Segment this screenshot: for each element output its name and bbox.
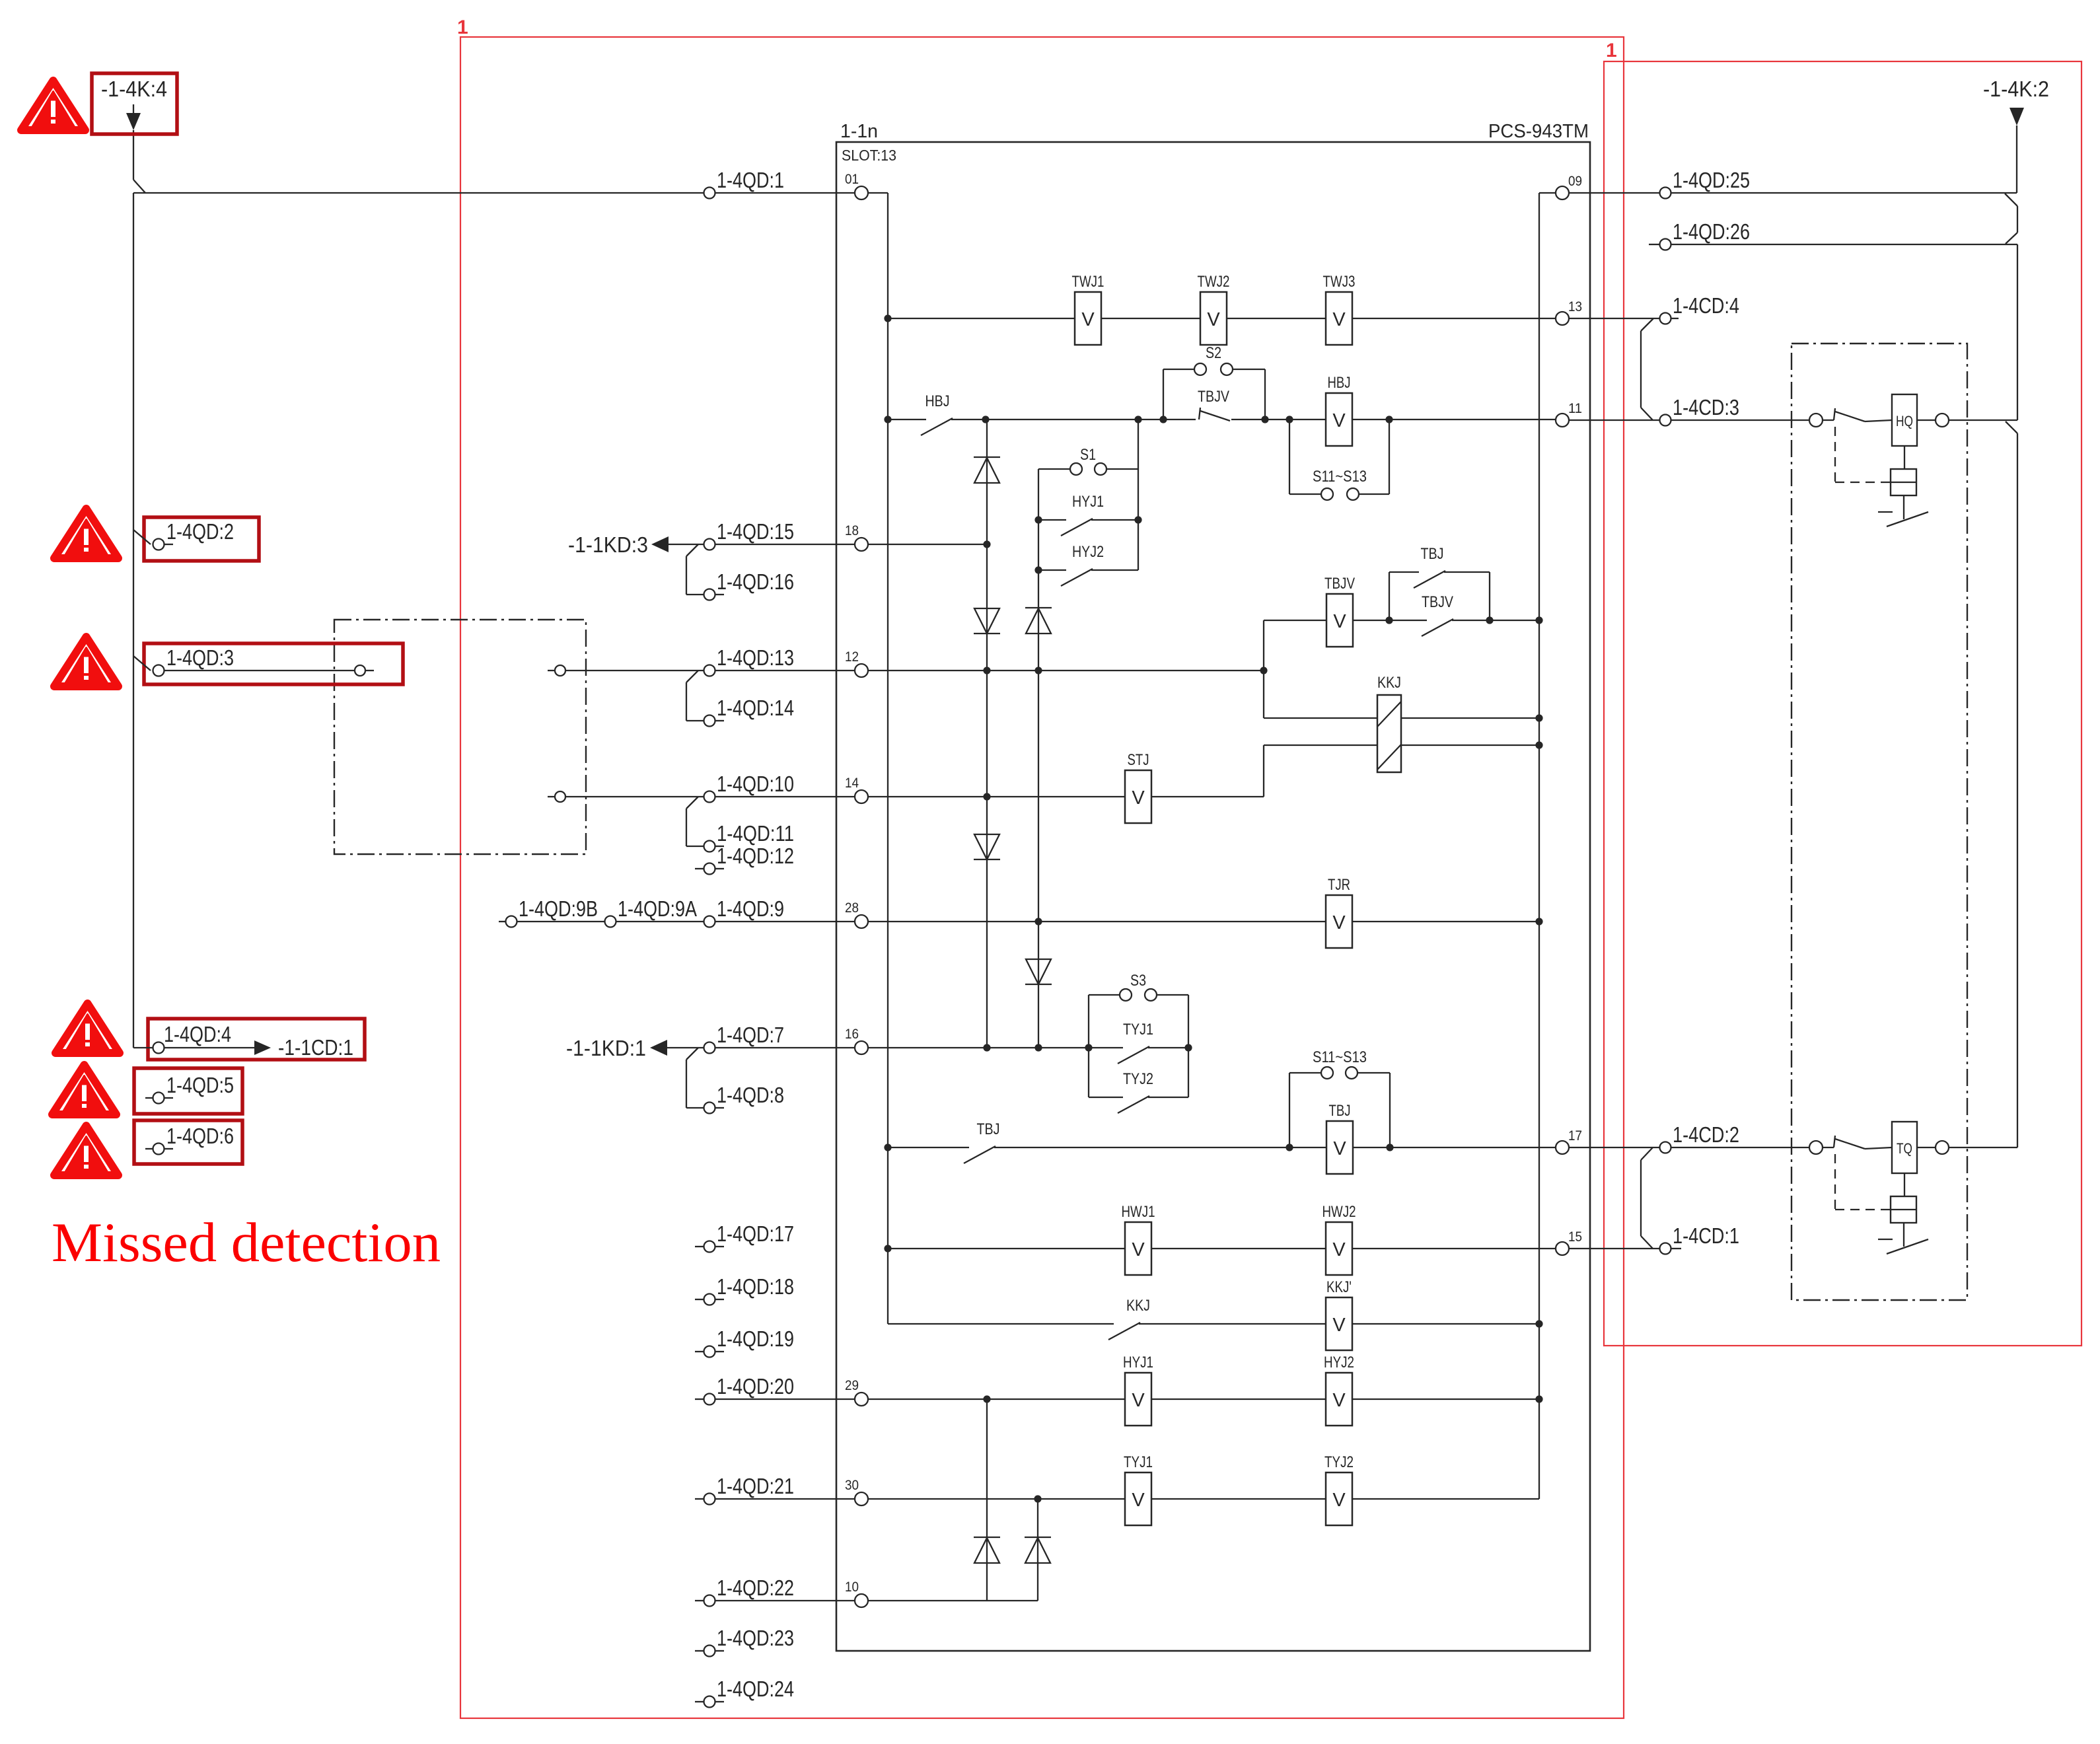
junction TBJ/S11 right	[1386, 1144, 1393, 1151]
highlight box 1-4QD:2	[144, 517, 259, 561]
svg-text:1-4QD:24: 1-4QD:24	[717, 1677, 794, 1701]
terminal 1-4QD:26	[1649, 219, 2017, 250]
svg-text:HWJ1: HWJ1	[1122, 1203, 1155, 1221]
svg-text:-1-4K:2: -1-4K:2	[1983, 77, 2049, 101]
wire 17 to 1-4CD:2	[1569, 1147, 1659, 1148]
svg-text:HYJ2: HYJ2	[1072, 543, 1104, 561]
terminal 1-4QD:8	[704, 1083, 785, 1114]
terminal 1-4QD:9	[704, 896, 855, 927]
wire 11 to 1-4CD:3	[1569, 419, 1659, 421]
svg-text:09: 09	[1568, 174, 1582, 189]
terminal 1-4QD:22	[695, 1576, 855, 1607]
diode D7 vertical	[1037, 1499, 1038, 1601]
junction on right bus y939	[1535, 616, 1542, 624]
svg-text:16: 16	[845, 1027, 859, 1042]
breaker close coil HQ	[1809, 394, 1949, 527]
svg-text:S2: S2	[1206, 344, 1221, 362]
svg-text:S11~S13: S11~S13	[1313, 468, 1367, 486]
svg-text:TBJV: TBJV	[1198, 388, 1229, 406]
junction x1494 row13	[983, 667, 990, 674]
svg-text:TBJV: TBJV	[1324, 575, 1355, 593]
svg-text:S1: S1	[1080, 446, 1096, 464]
warning icon 1	[21, 81, 85, 130]
terminal 1-4QD:15	[704, 519, 855, 550]
block pin 09	[1556, 174, 1582, 200]
terminal 1-4QD:7	[704, 1023, 855, 1054]
relay coil HWJ2	[1322, 1203, 1356, 1275]
terminal 1-4QD:11	[704, 821, 795, 852]
junction on bus at HWJ row	[884, 1245, 891, 1252]
relay KKJ (hatched)	[1377, 674, 1401, 772]
wire 09 to 1-4QD:25	[1569, 192, 1659, 194]
svg-text:PCS-943TM: PCS-943TM	[1488, 121, 1589, 142]
svg-text:1-4QD:7: 1-4QD:7	[717, 1023, 784, 1047]
svg-text:V: V	[1132, 787, 1145, 809]
terminal on dashed box right (row13)	[548, 665, 704, 676]
diode D2 (down)	[974, 608, 1000, 634]
svg-text:1-4QD:8: 1-4QD:8	[717, 1083, 784, 1107]
KKJ bottom wire	[1264, 745, 1539, 746]
contact KKJ	[1108, 1297, 1150, 1340]
svg-text:S3: S3	[1130, 972, 1146, 990]
relay coil KKJ'	[1326, 1278, 1352, 1350]
svg-text:V: V	[1081, 309, 1095, 330]
diode D3 (up)	[1025, 608, 1052, 634]
svg-text:TBJ: TBJ	[1329, 1102, 1351, 1120]
relay coil HBJ	[1326, 374, 1352, 446]
junction HBJ/S2 right	[1261, 416, 1268, 423]
jog at HQ row	[2006, 421, 2017, 433]
block pin 29	[845, 1378, 868, 1406]
TYJ row wire	[868, 1498, 1539, 1500]
svg-text:HYJ1: HYJ1	[1123, 1354, 1153, 1371]
right vertical rail upper	[2017, 244, 2018, 420]
svg-text:28: 28	[845, 900, 859, 916]
svg-text:1-4QD:14: 1-4QD:14	[717, 696, 794, 720]
svg-text:V: V	[1332, 1490, 1346, 1511]
svg-text:STJ: STJ	[1128, 751, 1149, 769]
svg-text:1-4QD:12: 1-4QD:12	[717, 844, 794, 868]
svg-text:V: V	[1207, 309, 1220, 330]
relay coil TBJ	[1326, 1102, 1353, 1174]
sink arrow -1-4K:2	[1983, 77, 2049, 193]
svg-text:1-4QD:9B: 1-4QD:9B	[519, 896, 598, 921]
svg-text:1-4QD:18: 1-4QD:18	[717, 1274, 794, 1299]
S2 branch	[1163, 344, 1265, 419]
svg-text:30: 30	[845, 1478, 859, 1493]
terminal 1-4QD:20	[695, 1374, 855, 1405]
svg-text:1-4QD:22: 1-4QD:22	[717, 1576, 794, 1600]
terminal 1-4CD:4	[1660, 293, 1740, 324]
relay coil TWJ2	[1198, 273, 1230, 345]
svg-text:V: V	[1332, 410, 1346, 431]
junction x1572 row16	[1034, 1044, 1042, 1051]
svg-text:TYJ2: TYJ2	[1324, 1453, 1354, 1471]
bracket 13/14	[686, 671, 704, 721]
svg-text:29: 29	[845, 1378, 859, 1393]
HBJ row wire	[888, 419, 1556, 420]
dashed outline box (right)	[1792, 344, 1967, 1300]
contact TBJV (lower)	[1389, 593, 1490, 636]
svg-text:10: 10	[845, 1580, 859, 1595]
page reference box 1 label	[457, 17, 468, 38]
top rail wire	[133, 192, 704, 194]
junction x1572 row9	[1034, 918, 1042, 925]
bracket 10/11	[686, 797, 704, 846]
terminal 1-4QD:18	[695, 1274, 794, 1305]
svg-text:1-4QD:9A: 1-4QD:9A	[618, 896, 697, 921]
junction TYJ/diode	[1034, 1495, 1041, 1502]
missed detection text	[52, 1212, 441, 1274]
svg-text:1-4CD:2: 1-4CD:2	[1673, 1122, 1739, 1147]
terminal 1-4CD:3	[1660, 395, 1810, 426]
relay coil HYJ1	[1123, 1354, 1153, 1426]
page reference box 1 (red outline)	[460, 37, 1624, 1718]
block pin 01	[845, 172, 868, 200]
device block 1-1n	[836, 142, 1590, 1651]
HWJ row wire	[888, 1248, 1556, 1249]
arrow to -1-1KD:1	[566, 1036, 704, 1060]
svg-text:1-4QD:11: 1-4QD:11	[717, 821, 794, 846]
wire 15 to 1-4CD:1	[1569, 1248, 1659, 1249]
svg-text:17: 17	[1568, 1128, 1582, 1144]
svg-text:V: V	[1132, 1490, 1145, 1511]
TWJ row wire	[888, 318, 1556, 319]
terminal 1-4QD:19	[695, 1326, 794, 1358]
KKJ top wire	[1264, 717, 1539, 719]
svg-text:1-4CD:3: 1-4CD:3	[1673, 395, 1739, 419]
block pin 16	[845, 1027, 868, 1054]
link CD:4 to CD:3	[1641, 318, 1653, 420]
row 18 wire	[868, 544, 987, 545]
S1 group right rail	[1138, 419, 1139, 570]
TBJV row wire	[1264, 620, 1389, 621]
junction HBJ/S1 rail	[1134, 416, 1141, 423]
svg-text:TBJV: TBJV	[1422, 593, 1453, 611]
svg-text:1-4CD:4: 1-4CD:4	[1673, 293, 1739, 318]
page reference box 2 label	[1606, 40, 1617, 61]
svg-text:1-4QD:21: 1-4QD:21	[717, 1474, 794, 1498]
relay coil TJR	[1326, 876, 1352, 948]
left vertical rail	[133, 193, 134, 1048]
svg-text:HWJ2: HWJ2	[1322, 1203, 1356, 1221]
source arrow -1-4K:4	[101, 77, 167, 180]
svg-text:V: V	[1333, 611, 1346, 632]
relay coil TBJV	[1324, 575, 1355, 647]
svg-text:KKJ': KKJ'	[1326, 1278, 1352, 1296]
block pin 28	[845, 900, 868, 928]
svg-text:V: V	[1332, 1239, 1346, 1260]
svg-text:1-4QD:10: 1-4QD:10	[717, 772, 794, 796]
svg-text:Missed detection: Missed detection	[52, 1212, 441, 1274]
junction HYJ1 right	[1134, 516, 1141, 523]
diode D1 (up)	[974, 457, 1000, 483]
svg-text:1-4QD:23: 1-4QD:23	[717, 1626, 794, 1650]
terminal 1-4QD:12	[695, 844, 794, 875]
terminal 1-4QD:6	[145, 1124, 234, 1155]
arrow to -1-1CD:1	[254, 1035, 353, 1060]
svg-text:1-4QD:2: 1-4QD:2	[166, 519, 234, 544]
relay coil TYJ2	[1324, 1453, 1354, 1525]
S1 branch	[1038, 446, 1138, 475]
svg-text:15: 15	[1568, 1229, 1582, 1245]
warning icon 4	[55, 1003, 120, 1053]
svg-text:V: V	[1332, 309, 1346, 330]
breaker trip coil TQ	[1809, 1122, 1949, 1254]
dashed outline box (left)	[334, 620, 586, 854]
svg-text:11: 11	[1568, 401, 1582, 416]
jog wires 25/26	[2005, 194, 2017, 244]
terminal 1-4QD:23	[695, 1626, 794, 1657]
svg-text:V: V	[1333, 1138, 1346, 1159]
svg-text:TJR: TJR	[1328, 876, 1350, 894]
terminal on dashed box right (row10)	[548, 791, 704, 802]
diode D7 (up)	[1025, 1537, 1051, 1563]
contact TBJV (HBJ row)	[1198, 388, 1230, 421]
svg-text:HQ: HQ	[1896, 413, 1913, 429]
S3 group right rail	[1188, 995, 1189, 1097]
row 13 wire inside block	[868, 670, 1264, 671]
svg-text:1-4CD:1: 1-4CD:1	[1673, 1223, 1739, 1248]
svg-text:01: 01	[845, 172, 859, 187]
S1 group left rail	[1038, 469, 1039, 1048]
highlight box 1-4QD:3	[144, 643, 403, 684]
svg-text:1-4QD:13: 1-4QD:13	[717, 645, 794, 670]
block pin 15	[1556, 1229, 1582, 1255]
right vertical rail lower	[2017, 433, 2018, 1147]
junction on bus at TWJ row	[884, 314, 891, 322]
diode D5 (down)	[1025, 959, 1052, 984]
svg-text:1: 1	[1606, 40, 1617, 61]
junction on right bus y1395	[1535, 918, 1542, 925]
page reference box 2 (red outline)	[1604, 61, 2082, 1346]
junction x1572 row13	[1034, 667, 1042, 674]
S3 group left rail	[1088, 995, 1089, 1097]
wire TQ to rail	[1949, 1147, 2017, 1148]
TBJ bypass branch	[1389, 545, 1490, 620]
svg-text:V: V	[1332, 912, 1346, 933]
highlight box 1-4QD:4	[148, 1019, 365, 1060]
wire TBJ branch to bus	[1490, 620, 1539, 621]
svg-text:V: V	[1332, 1390, 1346, 1411]
svg-text:S11~S13: S11~S13	[1313, 1048, 1367, 1066]
relay coil TYJ1	[1124, 1453, 1153, 1525]
block pin 17	[1556, 1128, 1582, 1154]
junction on right bus y2118	[1535, 1395, 1542, 1402]
highlight box -1-4K:4	[92, 73, 177, 134]
contact HBJ	[921, 392, 953, 435]
svg-text:SLOT:13: SLOT:13	[842, 147, 896, 164]
svg-text:KKJ: KKJ	[1126, 1297, 1150, 1315]
junction on right bus y2004	[1535, 1320, 1542, 1327]
svg-text:1-4QD:26: 1-4QD:26	[1673, 219, 1750, 244]
row 22 wire	[868, 1600, 1038, 1601]
svg-text:KKJ: KKJ	[1377, 674, 1401, 692]
terminal 1-4QD:13	[704, 645, 855, 676]
contact TYJ1	[1118, 1021, 1153, 1064]
svg-text:TWJ2: TWJ2	[1198, 273, 1230, 291]
junction on bus at TBJ row	[884, 1144, 891, 1151]
highlight box 1-4QD:5	[134, 1068, 242, 1114]
svg-text:V: V	[1332, 1315, 1346, 1336]
junction x1494 row10	[983, 793, 990, 800]
riser TBJV-KKJ	[1263, 620, 1264, 718]
svg-text:1-4QD:3: 1-4QD:3	[166, 645, 234, 670]
highlight box 1-4QD:6	[134, 1120, 242, 1164]
junction TBJV right	[1385, 616, 1393, 624]
terminal 1-4QD:25	[1660, 168, 2017, 199]
link CD:2 to CD:1	[1641, 1147, 1653, 1249]
warning icon 2	[54, 509, 118, 558]
diode chain left vertical	[986, 419, 988, 1048]
svg-text:HYJ1: HYJ1	[1072, 493, 1104, 511]
relay coil TWJ1	[1072, 273, 1104, 345]
relay coil TWJ3	[1323, 273, 1356, 345]
TJR row wire	[868, 921, 1539, 922]
svg-text:18: 18	[845, 523, 859, 538]
warning icon 5	[52, 1065, 116, 1114]
junction HBJ/S11 right	[1385, 416, 1393, 423]
S3 branch	[1089, 972, 1188, 1001]
terminal 1-4QD:9A	[605, 896, 704, 927]
S11~S13 branch (TBJ)	[1289, 1048, 1390, 1147]
HYJ row wire	[868, 1399, 1539, 1400]
wire HQ to rail	[1949, 419, 2017, 421]
terminal 1-4QD:4	[133, 1022, 254, 1054]
svg-text:1-4QD:1: 1-4QD:1	[717, 168, 784, 192]
contact HYJ1	[1038, 493, 1138, 536]
svg-text:V: V	[1132, 1390, 1145, 1411]
block pin 18	[845, 523, 868, 551]
terminal 1-4QD:1	[704, 168, 855, 199]
terminal 1-4QD:16	[704, 569, 795, 600]
junction TBJ/S11 left	[1285, 1144, 1293, 1151]
junction on right bus y1087	[1535, 714, 1542, 721]
wire 13 to 1-4CD:4	[1569, 318, 1659, 319]
block pin 10	[845, 1580, 868, 1607]
block pin 12	[845, 649, 868, 677]
svg-text:TWJ1: TWJ1	[1072, 273, 1104, 291]
junction HYJ2 left	[1034, 566, 1042, 573]
junction HYJ/diode	[983, 1395, 990, 1402]
riser KKJ-STJ	[1263, 745, 1264, 797]
junction S3 left row16	[1085, 1044, 1092, 1051]
svg-text:1: 1	[457, 17, 468, 38]
svg-text:1-4QD:5: 1-4QD:5	[166, 1073, 234, 1097]
block label SLOT:13	[842, 147, 896, 164]
svg-text:-1-1KD:3: -1-1KD:3	[568, 532, 648, 557]
svg-text:1-4QD:17: 1-4QD:17	[717, 1221, 794, 1246]
junction riser row13	[1260, 667, 1267, 674]
svg-text:TYJ1: TYJ1	[1124, 1453, 1153, 1471]
terminal 1-4QD:3	[133, 645, 354, 676]
terminal 1-4QD:24	[695, 1677, 794, 1708]
svg-text:1-4QD:15: 1-4QD:15	[717, 519, 794, 544]
diode D6 vertical	[986, 1399, 988, 1601]
bracket 15/16	[686, 544, 704, 595]
block label PCS-943TM	[1488, 121, 1589, 142]
terminal 1-4QD:2	[133, 519, 234, 550]
junction x1494 row15	[983, 540, 990, 548]
relay coil HYJ2	[1324, 1354, 1354, 1426]
junction TBJV/TBJ right	[1486, 616, 1493, 624]
svg-text:TWJ3: TWJ3	[1323, 273, 1356, 291]
contact TYJ2	[1089, 1070, 1188, 1113]
diode D4 (down)	[974, 834, 1000, 859]
KKJ row wire	[888, 1323, 1539, 1325]
block label 1-1n	[840, 121, 878, 142]
terminal 1-4QD:14	[704, 696, 795, 727]
junction S3 right row16	[1184, 1044, 1192, 1051]
junction HYJ1 left	[1034, 516, 1042, 523]
svg-text:1-4QD:20: 1-4QD:20	[717, 1374, 794, 1399]
relay coil HWJ1	[1122, 1203, 1155, 1275]
svg-text:TBJ: TBJ	[1421, 545, 1444, 563]
TBJ row wire	[888, 1147, 1556, 1148]
bracket 7/8	[686, 1048, 704, 1108]
terminal 1-4QD:9B	[499, 896, 604, 927]
wire jog into top rail	[133, 180, 145, 193]
svg-text:13: 13	[1568, 299, 1582, 314]
terminal 1-4QD:5	[145, 1073, 234, 1104]
arrow to -1-1KD:3	[568, 532, 704, 557]
contact TBJ	[964, 1120, 1000, 1163]
inner right bus wire	[1539, 193, 1556, 1499]
relay coil STJ	[1125, 751, 1151, 823]
svg-text:V: V	[1132, 1239, 1145, 1260]
contact HYJ2	[1038, 543, 1138, 586]
warning icon 3	[54, 637, 118, 686]
terminal 1-4QD:10	[704, 772, 855, 803]
svg-text:1-4QD:25: 1-4QD:25	[1673, 168, 1750, 192]
svg-text:TBJ: TBJ	[977, 1120, 1000, 1138]
svg-text:-1-4K:4: -1-4K:4	[101, 77, 167, 101]
inner left bus wire	[868, 193, 888, 1324]
junction on bus at HBJ row	[884, 416, 891, 423]
S11~S13 branch (HBJ)	[1289, 419, 1389, 500]
svg-text:1-4QD:4: 1-4QD:4	[164, 1022, 231, 1046]
junction HBJ/S2 left	[1159, 416, 1167, 423]
svg-text:12: 12	[845, 649, 859, 665]
svg-text:1-4QD:9: 1-4QD:9	[717, 896, 784, 921]
terminal 1-4QD:17	[695, 1221, 794, 1253]
terminal 1-4QD:21	[695, 1474, 855, 1505]
junction HBJ/diode chain	[982, 416, 989, 423]
row 16 wire	[868, 1047, 1188, 1048]
svg-text:14: 14	[845, 776, 859, 791]
block pin 13	[1556, 299, 1582, 325]
svg-text:-1-1KD:1: -1-1KD:1	[566, 1036, 646, 1060]
svg-text:1-4QD:19: 1-4QD:19	[717, 1326, 794, 1351]
terminal 1-4CD:1	[1660, 1223, 1740, 1254]
block pin 11	[1556, 401, 1582, 427]
svg-text:1-1n: 1-1n	[840, 121, 878, 142]
svg-text:HBJ: HBJ	[925, 392, 950, 410]
STJ row wire	[868, 796, 1264, 797]
svg-text:1-4QD:16: 1-4QD:16	[717, 569, 794, 594]
svg-text:HYJ2: HYJ2	[1324, 1354, 1354, 1371]
svg-text:TYJ1: TYJ1	[1123, 1021, 1153, 1038]
svg-text:-1-1CD:1: -1-1CD:1	[278, 1035, 353, 1060]
terminal 1-4CD:2	[1660, 1122, 1810, 1153]
block pin 30	[845, 1478, 868, 1506]
diode D6 (up)	[974, 1537, 1000, 1563]
junction on right bus y1128	[1535, 741, 1542, 748]
junction HBJ/S11 left	[1285, 416, 1293, 423]
svg-text:HBJ: HBJ	[1328, 374, 1351, 392]
svg-text:1-4QD:6: 1-4QD:6	[166, 1124, 234, 1148]
block pin 14	[845, 776, 868, 803]
